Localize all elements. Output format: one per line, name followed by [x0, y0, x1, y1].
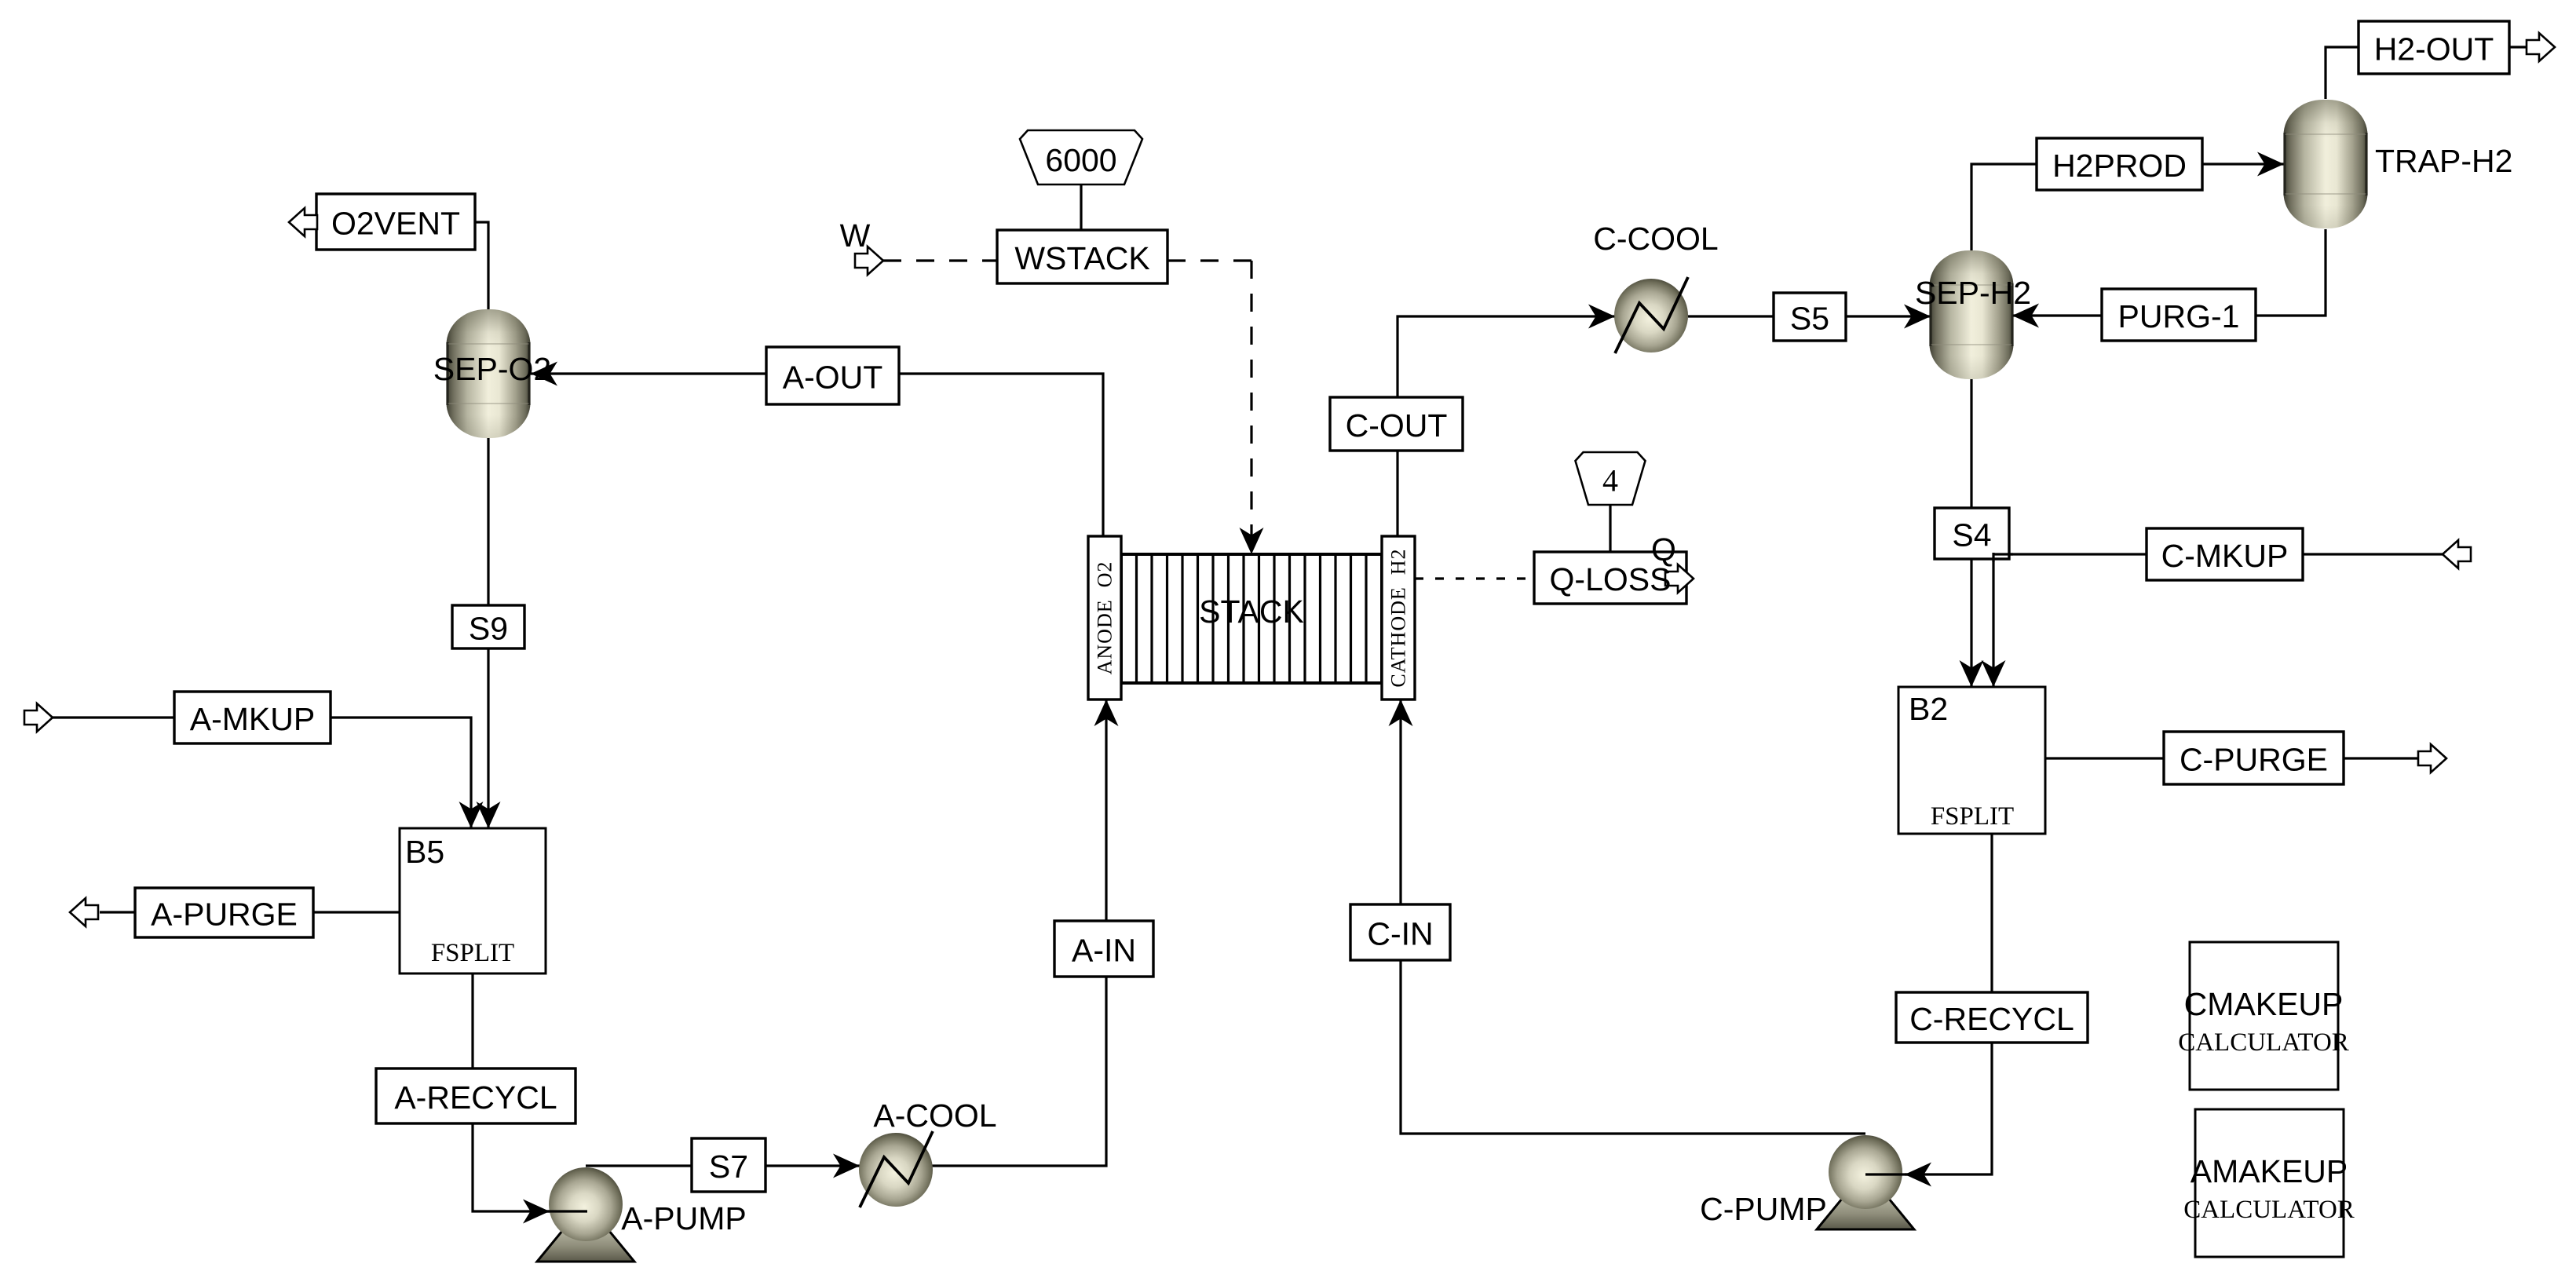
svg-text:C-MKUP: C-MKUP: [2161, 538, 2289, 574]
svg-text:A-MKUP: A-MKUP: [190, 701, 315, 737]
svg-text:C-IN: C-IN: [1367, 916, 1433, 952]
svg-text:C-OUT: C-OUT: [1346, 407, 1448, 444]
svg-text:ANODE O2: ANODE O2: [1094, 561, 1116, 675]
svg-text:CMAKEUP: CMAKEUP: [2184, 986, 2344, 1022]
svg-text:S5: S5: [1790, 301, 1829, 337]
svg-text:6000: 6000: [1045, 142, 1116, 178]
svg-text:WSTACK: WSTACK: [1014, 240, 1149, 276]
svg-text:S7: S7: [709, 1149, 748, 1185]
svg-text:C-PUMP: C-PUMP: [1700, 1191, 1827, 1227]
svg-text:FSPLIT: FSPLIT: [431, 939, 514, 967]
svg-text:C-COOL: C-COOL: [1593, 221, 1718, 257]
svg-text:A-RECYCL: A-RECYCL: [394, 1079, 557, 1116]
svg-text:W: W: [840, 217, 871, 254]
svg-text:SEP-H2: SEP-H2: [1915, 275, 2031, 311]
svg-text:4: 4: [1602, 463, 1618, 499]
svg-text:TRAP-H2: TRAP-H2: [2375, 143, 2512, 179]
svg-text:A-PUMP: A-PUMP: [621, 1200, 746, 1236]
svg-text:STACK: STACK: [1199, 594, 1304, 630]
svg-text:A-IN: A-IN: [1072, 933, 1136, 969]
svg-text:CALCULATOR: CALCULATOR: [2178, 1028, 2349, 1057]
svg-text:H2PROD: H2PROD: [2052, 148, 2187, 184]
svg-text:Q: Q: [1651, 531, 1676, 568]
svg-text:AMAKEUP: AMAKEUP: [2191, 1153, 2348, 1189]
svg-text:A-PURGE: A-PURGE: [151, 897, 298, 933]
svg-text:PURG-1: PURG-1: [2118, 298, 2240, 334]
svg-text:H2-OUT: H2-OUT: [2374, 31, 2494, 68]
svg-text:C-RECYCL: C-RECYCL: [1909, 1001, 2074, 1037]
svg-text:S9: S9: [469, 611, 508, 647]
svg-text:O2VENT: O2VENT: [331, 206, 460, 242]
svg-text:A-COOL: A-COOL: [873, 1098, 996, 1134]
svg-text:C-PURGE: C-PURGE: [2180, 742, 2328, 778]
svg-text:FSPLIT: FSPLIT: [1931, 802, 2014, 831]
svg-text:CALCULATOR: CALCULATOR: [2183, 1196, 2355, 1224]
svg-text:CATHODE H2: CATHODE H2: [1387, 548, 1410, 687]
svg-text:B2: B2: [1909, 691, 1948, 727]
svg-text:A-OUT: A-OUT: [783, 360, 883, 396]
svg-text:SEP-O2: SEP-O2: [433, 351, 551, 387]
svg-text:B5: B5: [405, 834, 444, 870]
svg-text:S4: S4: [1952, 517, 1991, 553]
